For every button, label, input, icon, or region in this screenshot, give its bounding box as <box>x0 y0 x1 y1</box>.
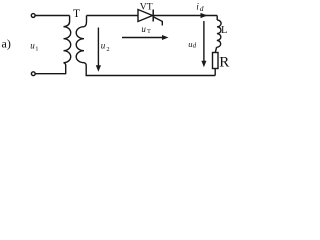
label u1 <box>30 40 38 52</box>
svg-text:u: u <box>141 24 146 34</box>
label u2 <box>101 41 110 53</box>
wire thyristor cathode to top-right corner <box>153 15 217 17</box>
svg-text:R: R <box>219 54 229 70</box>
svg-text:1: 1 <box>35 46 38 53</box>
svg-text:u: u <box>101 41 106 51</box>
wire resistor to bottom rail <box>214 69 216 76</box>
label id <box>196 3 204 13</box>
svg-text:d: d <box>193 42 197 50</box>
ud voltage arrow <box>201 21 206 67</box>
svg-text:d: d <box>200 4 204 13</box>
inductor L winding <box>217 20 222 47</box>
thyristor VT gate lead <box>154 17 163 26</box>
svg-text:a): a) <box>2 37 11 51</box>
terminal top-left <box>31 14 35 18</box>
uT voltage arrow <box>122 35 169 40</box>
svg-text:T: T <box>147 29 151 35</box>
wire top-right corner down to inductor <box>216 16 218 21</box>
transformer T primary winding <box>64 16 71 74</box>
thyristor VT cathode bar <box>152 10 154 22</box>
svg-text:T: T <box>73 8 80 20</box>
wire secondary to thyristor anode <box>87 15 139 17</box>
wire bottom-left to transformer primary <box>35 73 66 75</box>
label ud <box>188 39 196 50</box>
svg-text:L: L <box>221 25 227 36</box>
terminal bottom-left <box>31 72 35 76</box>
bottom rail wire <box>86 75 216 77</box>
svg-text:2: 2 <box>106 46 109 53</box>
thyristor VT triangle <box>138 10 153 22</box>
wire inductor to resistor <box>215 47 216 52</box>
resistor R box <box>213 53 219 69</box>
transformer T secondary winding <box>76 16 86 76</box>
label uT <box>141 24 151 35</box>
wire top-left to transformer primary <box>35 15 69 17</box>
id current arrowhead on wire <box>201 13 208 18</box>
u2 voltage arrow <box>96 28 101 72</box>
